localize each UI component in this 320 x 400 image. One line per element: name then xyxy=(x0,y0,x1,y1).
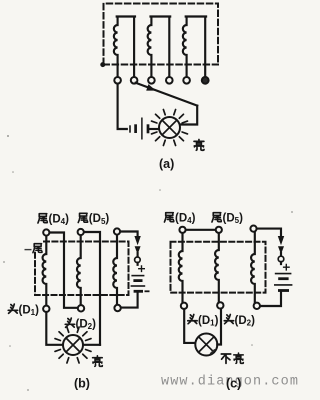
svg-text:(b): (b) xyxy=(74,377,90,391)
wire D5 link (top horizontal + right leg down to lamp) xyxy=(84,232,100,345)
terminal D4 (b) xyxy=(43,229,49,235)
svg-text:(D2): (D2) xyxy=(235,315,256,328)
arrowhead 2 on battery branch (b) xyxy=(135,246,141,254)
wire lamp to corner xyxy=(180,106,197,125)
terminal 2 xyxy=(131,77,138,84)
plus sign (b) xyxy=(139,266,145,271)
label 尾(D5) (b) xyxy=(78,213,109,226)
wire battery to winding3 bottom terminal xyxy=(121,263,138,308)
wire D1 down to lamp xyxy=(46,312,63,345)
terminal D5 (b) xyxy=(78,229,84,235)
terminal winding3 bottom (b) xyxy=(114,305,120,311)
winding L1 (diagram c) coil leg xyxy=(179,233,183,303)
terminal winding3 top (c) xyxy=(250,226,256,232)
svg-text:(D1): (D1) xyxy=(198,315,219,328)
winding L2 (diagram b) coil leg xyxy=(77,235,81,305)
battery GB (diagram b) xyxy=(131,276,150,292)
wire battery to winding3 bottom terminal (c) xyxy=(260,262,281,306)
terminal 6 (inked solid) xyxy=(202,77,209,84)
label 尾(D4) (b) xyxy=(38,213,69,226)
terminal D2 (b) xyxy=(78,305,84,311)
arrowhead 1 on battery branch (c) xyxy=(278,236,284,245)
label 尾(D5) (c) xyxy=(212,212,243,225)
label 头(D2) (c) xyxy=(224,314,255,327)
wire lamp right up to D5 link xyxy=(83,344,100,346)
wire D1 down to lamp (c) xyxy=(184,309,195,343)
wire D4 link over to D2 (top horizontal + right leg + cup) xyxy=(50,233,78,308)
wire lamp right up to D2 (c) xyxy=(217,309,221,345)
winding L1 (diagram a) xyxy=(114,17,135,77)
artifact tick near lamp (c) xyxy=(211,350,215,354)
terminal 3 xyxy=(148,77,155,84)
wire D4-D5 top link (c) xyxy=(186,229,216,231)
dashed enclosure (diagram b) xyxy=(35,242,129,296)
svg-text:(D4): (D4) xyxy=(175,212,196,225)
terminal winding3 top (b) xyxy=(114,228,120,234)
terminal D1 (b) xyxy=(43,306,49,312)
terminal D4 (c) xyxy=(179,227,185,233)
label 头(D2) (b) xyxy=(65,318,96,331)
lamp HL (diagram b, lit) xyxy=(55,327,91,363)
label 头(D1) (b) xyxy=(8,304,39,317)
wire terminal1 to battery xyxy=(118,84,127,129)
terminal 4 xyxy=(166,77,173,84)
terminal D1 (c) xyxy=(181,303,187,309)
svg-text:(D5): (D5) xyxy=(89,213,110,226)
wire to contact circle xyxy=(137,253,139,257)
contact circle (switch, b) xyxy=(135,257,141,263)
label 尾(D4) (c) xyxy=(164,212,195,225)
svg-text:(D2): (D2) xyxy=(76,318,97,331)
wire diagonal corner to terminal 2 xyxy=(136,83,198,106)
lamp HL (diagram c, not lit) xyxy=(195,334,217,356)
label 亮 (b) xyxy=(93,356,103,367)
terminal D5 (c) xyxy=(216,227,222,233)
terminal winding3 bottom (c) xyxy=(254,303,260,309)
motor enclosure (dashed box, diagram a) xyxy=(104,4,219,65)
svg-text:(a): (a) xyxy=(159,157,174,171)
battery GB (diagram c) xyxy=(274,274,292,291)
label 不亮 (c) xyxy=(221,353,243,363)
svg-text:(c): (c) xyxy=(226,377,241,391)
battery GB (diagram a) xyxy=(130,118,148,140)
wire winding3 top to battery branch xyxy=(120,232,137,237)
winding L3 (diagram c) coil leg xyxy=(251,232,255,303)
arrowhead on diagonal wire xyxy=(146,84,156,91)
contact circle (switch, c) xyxy=(278,256,284,262)
svg-text:(D4): (D4) xyxy=(49,213,70,226)
junction dot bottom-left corner xyxy=(100,62,105,67)
label 头(D1) (c) xyxy=(188,314,219,327)
winding L2 (diagram a) xyxy=(148,17,171,77)
plus sign (c) xyxy=(284,265,290,270)
svg-text:(D1): (D1) xyxy=(19,304,40,317)
label 亮 (diagram a) xyxy=(194,139,204,150)
winding L2 (diagram c) coil leg xyxy=(215,233,219,302)
svg-text:(D5): (D5) xyxy=(223,212,244,225)
terminal 5 xyxy=(183,77,190,84)
artifact dash left of enclosure corner (b) xyxy=(25,249,32,251)
paper speckles xyxy=(3,135,293,391)
enclosure bottom edge (dashed) xyxy=(104,64,219,66)
winding L1 (diagram b) coil leg xyxy=(43,236,47,306)
wire winding3 top to battery branch (c) xyxy=(257,229,281,236)
lamp HL (diagram a, lit) xyxy=(152,110,188,146)
arrowhead 2 on battery branch (c) xyxy=(278,246,284,254)
winding L3 (diagram a) xyxy=(183,17,206,77)
arrowhead 1 on battery branch (b) xyxy=(134,236,140,245)
label 尾 at box corner (b) xyxy=(33,244,42,253)
wire battery to lamp xyxy=(150,128,160,130)
wire to contact circle (c) xyxy=(280,253,282,256)
terminal D2 (c) xyxy=(217,302,223,308)
terminal 1 xyxy=(114,77,121,84)
winding L3 (diagram b) coil leg xyxy=(113,235,117,305)
dashed enclosure (diagram c) xyxy=(171,242,266,293)
